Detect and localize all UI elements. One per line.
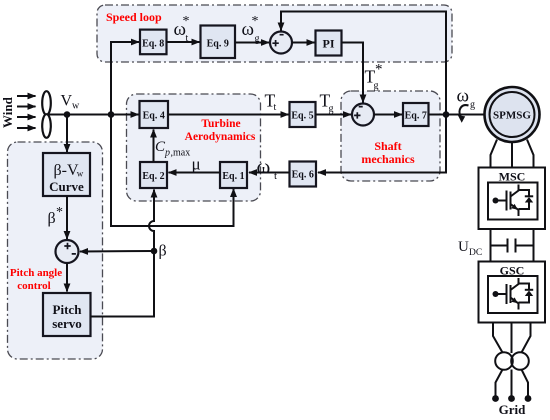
wire MSC to GSC dc rail right: [533, 229, 535, 262]
svg-text:SPMSG: SPMSG: [493, 110, 531, 122]
label omega_t*: [174, 14, 190, 44]
wire beta to pitch junction: [80, 250, 154, 253]
converter MSC: [479, 168, 546, 230]
wire GSC to transformer phase a: [493, 323, 503, 353]
wire PI down to shaft junction, T_g*: [342, 43, 364, 103]
wire shaft junction to Eq. 7: [374, 114, 402, 116]
label Cp,max: [155, 139, 190, 159]
svg-text:mechanics: mechanics: [361, 152, 415, 166]
node junction V_w to pitch: [64, 111, 71, 118]
svg-text:t: t: [274, 102, 277, 113]
wire wind arrow 1: [17, 95, 36, 97]
wire turbine shaft to Eq. 4: [47, 114, 139, 116]
wire speed junction to PI: [292, 42, 315, 44]
wire GSC to transformer phase b: [511, 323, 513, 354]
wire Curve to pitch junction, beta*: [66, 196, 68, 239]
container Speed loop box: [97, 5, 452, 62]
IGBT icon MSC: [493, 185, 534, 217]
label V_w: [61, 93, 81, 112]
svg-text:g: g: [374, 81, 379, 92]
turbine blades: [42, 91, 51, 138]
svg-text:V: V: [61, 93, 73, 110]
svg-text:β: β: [48, 210, 56, 227]
svg-text:Eq. 8: Eq. 8: [142, 38, 164, 49]
svg-text:DC: DC: [469, 248, 482, 258]
block Eq. 7: [403, 103, 429, 126]
converter GSC: [479, 262, 546, 323]
wire GSC to transformer phase c: [522, 323, 531, 353]
rotation arrow on shaft: [460, 105, 469, 116]
svg-text:t: t: [186, 33, 189, 44]
node grid terminal a: [492, 395, 499, 402]
wire omega_g feedback down to Eq. 6: [318, 115, 446, 173]
container Pitch angle control box: [8, 142, 103, 359]
svg-text:μ: μ: [192, 155, 201, 174]
svg-text:PI: PI: [323, 37, 335, 51]
label omega_g: [457, 86, 476, 111]
node junction omega_g: [443, 111, 450, 118]
wire Eq. 9 to speed summing junction: [235, 42, 269, 44]
label U_DC: [458, 239, 482, 258]
svg-text:control: control: [17, 280, 50, 292]
svg-text:p: p: [164, 148, 170, 159]
svg-text:Eq. 7: Eq. 7: [405, 111, 427, 122]
container Shaft mechanics box: [341, 91, 440, 181]
wire Eq. 6 to Eq. 1, omega_t: [249, 172, 290, 174]
block Eq. 4: [140, 101, 169, 128]
svg-text:Eq. 1: Eq. 1: [222, 171, 244, 182]
svg-text:Eq. 2: Eq. 2: [142, 171, 164, 182]
svg-text:,max: ,max: [171, 148, 191, 159]
svg-text:w: w: [72, 101, 80, 112]
label beta*: [48, 205, 64, 227]
wire Eq. 7 to SPMSG: [429, 114, 487, 116]
svg-text:Turbine: Turbine: [201, 118, 240, 130]
transformer: [495, 352, 529, 370]
wire Eq. 1 to Eq. 2, mu: [169, 172, 221, 174]
wire transformer to grid c: [522, 370, 529, 396]
svg-text:β-V: β-V: [54, 162, 79, 179]
svg-text:ω: ω: [257, 155, 271, 179]
svg-text:Eq. 5: Eq. 5: [291, 111, 313, 122]
svg-text:g: g: [470, 100, 475, 111]
label Turbine Aerodynamics: [185, 118, 256, 143]
label T_g: [320, 91, 334, 115]
label omega_g*: [242, 14, 260, 45]
svg-text:Eq. 4: Eq. 4: [143, 111, 165, 122]
svg-text:Aerodynamics: Aerodynamics: [185, 131, 256, 143]
svg-text:*: *: [183, 14, 190, 29]
label Pitch angle control: [10, 267, 62, 292]
capacitor U_DC: [491, 239, 534, 253]
block Eq. 6: [290, 162, 317, 187]
svg-text:MSC: MSC: [499, 170, 526, 184]
svg-text:β: β: [159, 243, 167, 260]
summing junction pitch: [56, 240, 79, 263]
summing junction shaft: [352, 104, 374, 126]
block Eq. 5: [290, 102, 316, 127]
svg-text:*: *: [252, 14, 259, 29]
wire Eq. 4 to Eq. 5, T_t: [168, 114, 289, 116]
wire pitch junction to Pitch servo: [66, 263, 68, 292]
svg-text:*: *: [375, 62, 383, 78]
wire wind arrow 3: [17, 116, 36, 118]
block Eq. 8: [140, 30, 167, 55]
svg-text:ω: ω: [457, 86, 470, 107]
svg-text:Pitch angle: Pitch angle: [10, 267, 62, 279]
block Eq. 2: [140, 162, 167, 188]
label T_g*: [365, 62, 383, 92]
svg-text:Grid: Grid: [499, 402, 526, 417]
node grid terminal b: [508, 395, 515, 402]
wire Eq. 5 to shaft junction, T_g: [316, 114, 352, 116]
wire SPMSG to MSC phase b: [511, 142, 513, 168]
block PI: [316, 31, 342, 56]
block Eq. 9: [201, 26, 236, 59]
wire wind arrow 4: [17, 127, 36, 129]
IGBT icon GSC: [493, 278, 534, 310]
wire V_w down to Beta-Vw Curve: [66, 115, 68, 153]
node junction beta: [151, 248, 158, 255]
svg-text:Eq. 9: Eq. 9: [207, 38, 229, 49]
svg-text:Speed loop: Speed loop: [106, 10, 162, 24]
label Shaft mechanics: [361, 139, 415, 166]
node grid terminal c: [525, 395, 532, 402]
svg-text:w: w: [77, 169, 84, 179]
wire V_w up to Eq. 8: [111, 42, 139, 115]
svg-text:Eq. 6: Eq. 6: [292, 170, 314, 181]
svg-text:servo: servo: [52, 316, 82, 331]
svg-text:g: g: [329, 104, 334, 115]
wire SPMSG to MSC phase a: [491, 140, 498, 168]
wire MSC to GSC dc rail left: [490, 229, 492, 262]
svg-text:U: U: [458, 239, 469, 255]
block Beta-Vw Curve: [43, 153, 90, 196]
label omega_t: [257, 155, 278, 183]
container Turbine Aerodynamics box: [127, 94, 261, 201]
wire SPMSG to MSC phase c: [527, 140, 534, 168]
wire wind arrow 2: [17, 106, 36, 108]
wire Pitch servo output up to Eq. 2 with hop over Vw line: [91, 190, 155, 317]
svg-text:Shaft: Shaft: [374, 139, 401, 153]
wire V_w down to Eq. 1: [111, 115, 234, 227]
node junction V_w feed: [108, 111, 115, 118]
block Pitch servo: [43, 293, 91, 336]
wire Eq. 2 up to Eq. 4, Cp_max: [153, 130, 155, 163]
wire transformer to grid a: [496, 370, 503, 396]
svg-text:Pitch: Pitch: [53, 302, 83, 317]
wire Eq. 8 to Eq. 9: [167, 41, 200, 43]
generator SPMSG: [485, 87, 540, 142]
wire omega_g feedback to speed junction: [281, 12, 446, 115]
svg-text:*: *: [56, 205, 63, 220]
svg-text:Wind: Wind: [0, 96, 15, 128]
summing junction speed loop: [270, 32, 292, 54]
svg-text:t: t: [274, 170, 277, 182]
svg-text:Curve: Curve: [49, 179, 84, 194]
svg-text:g: g: [255, 34, 260, 45]
wire transformer to grid b: [511, 370, 513, 396]
block Eq. 1: [220, 162, 247, 188]
label T_t: [265, 91, 277, 114]
